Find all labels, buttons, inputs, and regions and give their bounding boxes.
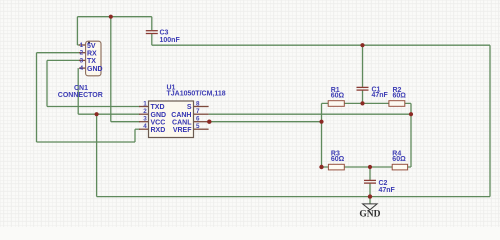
- svg-text:60Ω: 60Ω: [331, 156, 345, 163]
- svg-text:100nF: 100nF: [160, 37, 181, 44]
- svg-text:5V: 5V: [87, 43, 96, 50]
- svg-text:TJA1050T/CM,118: TJA1050T/CM,118: [167, 91, 226, 98]
- svg-text:GND: GND: [87, 66, 103, 73]
- svg-text:GND: GND: [359, 210, 380, 220]
- svg-text:7: 7: [196, 108, 200, 115]
- svg-text:60Ω: 60Ω: [393, 93, 407, 100]
- svg-text:GND: GND: [151, 112, 167, 119]
- svg-text:1: 1: [143, 101, 147, 108]
- svg-text:3: 3: [80, 57, 84, 64]
- svg-text:60Ω: 60Ω: [392, 156, 406, 163]
- svg-text:RXD: RXD: [151, 127, 166, 134]
- svg-text:4: 4: [80, 65, 84, 72]
- svg-text:VCC: VCC: [151, 119, 166, 126]
- svg-text:C2: C2: [379, 180, 388, 187]
- svg-text:VREF: VREF: [173, 127, 192, 134]
- svg-text:S: S: [187, 104, 192, 111]
- svg-text:CANH: CANH: [171, 112, 191, 119]
- svg-text:CONNECTOR: CONNECTOR: [58, 92, 103, 99]
- svg-text:6: 6: [196, 116, 200, 123]
- svg-text:8: 8: [196, 101, 200, 108]
- svg-text:47nF: 47nF: [379, 187, 396, 194]
- svg-text:CANL: CANL: [172, 119, 192, 126]
- svg-text:TXD: TXD: [151, 104, 165, 111]
- svg-text:60Ω: 60Ω: [331, 93, 345, 100]
- svg-text:C3: C3: [160, 30, 169, 37]
- svg-text:1: 1: [80, 42, 84, 49]
- svg-text:2: 2: [143, 108, 147, 115]
- svg-text:2: 2: [80, 50, 84, 57]
- svg-text:TX: TX: [87, 58, 96, 65]
- svg-text:RX: RX: [87, 51, 97, 58]
- svg-text:5: 5: [196, 123, 200, 130]
- svg-text:4: 4: [143, 123, 147, 130]
- svg-text:3: 3: [143, 116, 147, 123]
- svg-text:47nF: 47nF: [372, 92, 389, 99]
